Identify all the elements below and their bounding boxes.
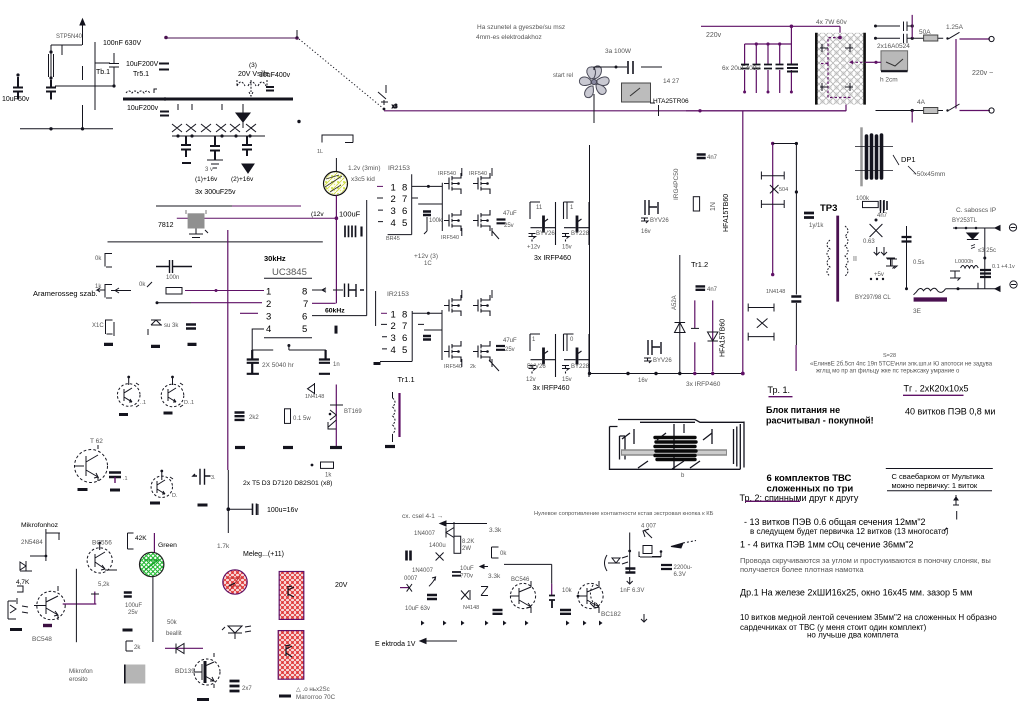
wire pin8 row1 — [412, 185, 442, 187]
svg-text:Нулевое сопротивление контактн: Нулевое сопротивление контактности кстав… — [534, 511, 714, 517]
svg-text:0.63: 0.63 — [863, 239, 875, 245]
diode Da — [446, 522, 454, 541]
svg-text:erosito: erosito — [69, 676, 88, 683]
wire pin1 purple — [185, 290, 264, 292]
svg-text:1: 1 — [391, 183, 396, 194]
wire pin8 — [312, 288, 343, 292]
svg-text:1N4148: 1N4148 — [766, 289, 785, 295]
svg-text:16v: 16v — [638, 378, 648, 384]
ground sym — [207, 160, 223, 168]
wire tr primary squiggle — [126, 91, 150, 93]
winding 20V dashed — [237, 82, 266, 86]
svg-text:3: 3 — [266, 312, 271, 323]
capacitor C 10uF50v second — [46, 80, 56, 100]
svg-text:4,7K: 4,7K — [16, 579, 30, 586]
diode purple wire — [165, 647, 203, 649]
transistor Qe — [510, 581, 536, 613]
wire top connector — [773, 143, 797, 145]
box svaeb bottom — [887, 490, 992, 492]
wire cap bank rail — [745, 26, 792, 93]
svg-text:1L: 1L — [317, 149, 323, 155]
diode D row bridge — [172, 124, 256, 132]
transistor mark hs2 — [285, 645, 292, 657]
svg-text:60kHz: 60kHz — [325, 308, 345, 315]
resistor bk1 — [105, 254, 112, 268]
wire purple column B — [772, 144, 774, 275]
svg-text:1400u: 1400u — [429, 543, 446, 549]
arrow elektroda — [420, 639, 457, 644]
snubber S1 — [761, 172, 784, 209]
resistor stack 3bars — [230, 681, 240, 691]
resistor 0.1 5w — [285, 409, 291, 424]
arrow feed — [440, 521, 487, 526]
winding TP3 primary — [827, 240, 830, 276]
resistor hash — [345, 226, 356, 238]
wire pin4 — [252, 329, 326, 350]
zener ctl — [148, 320, 162, 335]
svg-text:(2)+16v: (2)+16v — [231, 176, 254, 183]
capacitor bank plates — [741, 65, 784, 69]
svg-text:но лучьше два комплета: но лучьше два комплета — [807, 631, 899, 640]
svg-text:beallit: beallit — [166, 631, 182, 637]
svg-text:5: 5 — [302, 324, 307, 335]
svg-text:15v: 15v — [562, 245, 572, 251]
svg-text:0k: 0k — [139, 282, 146, 288]
svg-text:1n: 1n — [333, 362, 340, 368]
svg-text:11: 11 — [536, 205, 543, 211]
terminal plus — [1009, 224, 1016, 231]
svg-text:3x IRFP460: 3x IRFP460 — [533, 385, 570, 392]
wire out vert — [984, 228, 986, 289]
svg-text:Ha szunetel a gyeszbe/su msz: Ha szunetel a gyeszbe/su msz — [477, 24, 565, 31]
svg-text:0007: 0007 — [404, 576, 418, 582]
LED green — [140, 552, 164, 576]
svg-text:BYV26: BYV26 — [527, 364, 546, 370]
diode zener p2 — [712, 300, 714, 371]
transistor Q2 IRF540 — [473, 173, 490, 194]
wire purple column A — [742, 111, 744, 373]
svg-text:A52A: A52A — [672, 295, 678, 310]
svg-text:IRF540: IRF540 — [441, 235, 459, 241]
transformer TP3 core — [836, 216, 839, 302]
wire bottom bus mid — [590, 373, 743, 375]
diode De pair — [461, 590, 470, 600]
svg-text:BY297/98 CL: BY297/98 CL — [855, 295, 891, 301]
svg-text:1C: 1C — [424, 261, 432, 267]
svg-text:1k: 1k — [325, 473, 332, 479]
capacitor left leg — [902, 237, 912, 242]
svg-text:II: II — [853, 256, 857, 263]
svg-text:4: 4 — [391, 345, 396, 356]
svg-text:6x 20uF400v: 6x 20uF400v — [722, 65, 760, 72]
arrow dashed r — [671, 543, 683, 548]
fuse F1 — [924, 35, 938, 41]
relay contact r — [639, 546, 662, 558]
wire rectifier bus — [172, 104, 265, 136]
lamp NE1 yellow — [324, 172, 348, 196]
coil shading — [621, 449, 727, 456]
svg-text:4n7: 4n7 — [877, 213, 888, 219]
svg-text:10 витков медной лентой сечени: 10 витков медной лентой сечением 35мм"2 … — [740, 613, 997, 622]
ground row upper — [104, 345, 197, 347]
svg-text:HFA15TB60: HFA15TB60 — [723, 194, 730, 232]
capacitor snub top — [874, 22, 912, 32]
svg-text:T 62: T 62 — [90, 438, 103, 445]
wire minus row — [946, 283, 1001, 292]
optocoupler LED pair — [222, 626, 251, 639]
svg-text:50k: 50k — [167, 620, 178, 626]
ground g1 — [235, 446, 245, 449]
wire purple bottom link — [686, 110, 846, 112]
svg-text:2N5484: 2N5484 — [21, 539, 43, 546]
svg-text:7: 7 — [402, 321, 407, 332]
svg-text:2k: 2k — [470, 364, 476, 370]
svg-text:Tr1.1: Tr1.1 — [398, 375, 415, 384]
svg-text:3x IRFP460: 3x IRFP460 — [686, 381, 721, 388]
wire 7812 rail — [156, 205, 232, 207]
svg-text:1.25A: 1.25A — [946, 24, 964, 31]
thyristor T1 — [335, 385, 337, 447]
ground 7812 — [189, 229, 208, 238]
svg-text:4x 7W 60v: 4x 7W 60v — [816, 19, 847, 26]
svg-text:С сваебарком от Мультика: С сваебарком от Мультика — [892, 472, 986, 481]
svg-text:Тр. 1.: Тр. 1. — [768, 385, 791, 395]
node dots input — [16, 73, 19, 76]
svg-text:7: 7 — [402, 194, 407, 205]
diode zener mid — [675, 255, 686, 373]
svg-text:1N4007: 1N4007 — [414, 531, 436, 537]
svg-text:100uF: 100uF — [125, 603, 142, 609]
svg-text:..1: ..1 — [140, 400, 146, 406]
wire drain risers row1 — [462, 168, 506, 239]
resistor 2k b — [126, 641, 133, 651]
svg-text:2W: 2W — [462, 546, 471, 552]
capacitor on C — [791, 297, 801, 302]
transistor Q7 IRF540 — [444, 341, 461, 362]
svg-text:BR45: BR45 — [386, 236, 400, 242]
svg-text:15v: 15v — [562, 377, 572, 383]
resistor 10k bracket — [492, 547, 499, 558]
transistor Q BC548 — [34, 586, 65, 620]
svg-text:10uF200v: 10uF200v — [127, 105, 159, 112]
svg-text:можно первичку: 1 виток: можно первичку: 1 виток — [892, 481, 978, 490]
svg-text:3E: 3E — [913, 308, 922, 315]
svg-text:+5v: +5v — [874, 272, 884, 278]
pot wire purple — [400, 587, 410, 589]
svg-text:BT169: BT169 — [344, 409, 362, 415]
svg-text:+12v (3): +12v (3) — [414, 253, 438, 260]
node A top arrow — [80, 19, 85, 25]
transistor Q BC556 — [87, 542, 117, 573]
svg-text:C. saboscs IP: C. saboscs IP — [956, 207, 996, 214]
svg-text:UC3845: UC3845 — [272, 267, 307, 278]
svg-text:100nF 630V: 100nF 630V — [103, 40, 141, 47]
transistor Q3 IRF540 — [444, 210, 461, 231]
svg-text:5,2k: 5,2k — [98, 582, 110, 588]
svg-text:в следущем будет первичка 12 в: в следущем будет первичка 12 витков (13 … — [750, 527, 949, 536]
svg-text:D.: D. — [172, 493, 178, 499]
transistor mark hs1 — [287, 586, 294, 597]
svg-text:x3c5 kid: x3c5 kid — [351, 176, 375, 183]
transistor Qc big — [74, 445, 108, 490]
wire left out leg — [906, 226, 908, 289]
svg-text:2: 2 — [266, 299, 271, 310]
svg-text:8.2K: 8.2K — [462, 539, 474, 545]
svg-text:47uF: 47uF — [503, 338, 517, 344]
bracket lamp holder — [322, 135, 353, 172]
svg-text:1k: 1k — [95, 284, 102, 290]
svg-text:5: 5 — [402, 218, 407, 229]
svg-text:2X 5040 hr: 2X 5040 hr — [262, 362, 295, 369]
svg-text:3: 3 — [391, 206, 396, 217]
svg-text:7812: 7812 — [158, 222, 174, 229]
ground Tr1.1 — [385, 445, 395, 448]
wire pin2 — [156, 302, 191, 304]
wire fuse bottom — [876, 110, 944, 112]
wire pin8 row2 — [412, 310, 442, 360]
svg-text:3a 100W: 3a 100W — [605, 48, 632, 55]
svg-text:1.2v (3min): 1.2v (3min) — [348, 165, 381, 172]
svg-text:Tr1.2: Tr1.2 — [691, 260, 708, 269]
svg-text:4n7: 4n7 — [707, 155, 718, 161]
svg-text:Провода скручиваются за углом: Провода скручиваются за углом и простуки… — [740, 556, 991, 565]
svg-text:IRG4PC50: IRG4PC50 — [673, 168, 680, 200]
pot P1 — [166, 288, 182, 295]
svg-text:6.3V: 6.3V — [674, 572, 686, 578]
capacitor bank row2 B — [562, 334, 590, 377]
resistor 82K2W — [454, 536, 461, 553]
transformer T lattice box — [817, 33, 865, 105]
wire green feed — [153, 533, 155, 553]
terminal dots row — [870, 278, 872, 280]
terminal O1 — [989, 36, 994, 41]
relay K2 — [881, 51, 908, 71]
capacitor grp right row2 — [644, 340, 661, 363]
svg-text:HFA15TB60: HFA15TB60 — [720, 319, 727, 357]
capacitor pin8 — [345, 284, 365, 298]
svg-text:?70v: ?70v — [460, 574, 473, 580]
fuse F2 — [924, 108, 938, 114]
wire left joint — [55, 85, 95, 87]
svg-text:Meleg...(+11): Meleg...(+11) — [243, 551, 284, 558]
ground row mid — [104, 344, 197, 346]
capacitor dg — [560, 610, 571, 614]
svg-text:2200u-: 2200u- — [674, 565, 693, 571]
svg-text:N4148: N4148 — [463, 605, 479, 611]
svg-text:жглщ мо пр ап фильцу жке пс те: жглщ мо пр ап фильцу жке пс терьжсаку ум… — [816, 369, 960, 375]
svg-text:Тг . 2хК20х10х5: Тг . 2хК20х10х5 — [904, 384, 969, 394]
winding TP3 secondary — [845, 226, 848, 276]
wire jfet — [30, 529, 60, 561]
svg-text:16v: 16v — [641, 229, 651, 235]
svg-text:BY228: BY228 — [571, 364, 590, 370]
svg-text:cx. csel 4-1 →: cx. csel 4-1 → — [402, 513, 443, 520]
svg-text:100n: 100n — [166, 275, 179, 281]
svg-text:42K: 42K — [135, 535, 147, 542]
transistor Q4 IRF540 — [473, 210, 490, 231]
svg-text:6: 6 — [402, 206, 407, 217]
capacitor timing 1 — [247, 350, 259, 374]
svg-text:10uF200V: 10uF200V — [126, 61, 159, 68]
svg-text:10uF: 10uF — [460, 566, 474, 572]
box mic module — [125, 665, 146, 684]
wire below green — [152, 577, 154, 643]
transistor Q5 IRF540 — [444, 295, 461, 316]
ground g2 — [283, 446, 293, 449]
svg-text:E ektroda 1V: E ektroda 1V — [375, 641, 416, 648]
svg-text:BY228: BY228 — [571, 231, 590, 237]
wire fuse top — [912, 37, 943, 39]
svg-text:3x 300uF25v: 3x 300uF25v — [195, 189, 236, 196]
wire vert bus mic — [75, 569, 77, 642]
svg-text:4: 4 — [266, 324, 271, 335]
arrow left c — [480, 565, 488, 569]
capacitor 47uF row2 — [496, 346, 505, 350]
svg-text:BC182: BC182 — [601, 611, 621, 618]
svg-text:2k2: 2k2 — [249, 415, 259, 421]
optocoupler r — [605, 555, 629, 571]
svg-text:30kHz: 30kHz — [264, 254, 286, 263]
svg-text:BD139: BD139 — [175, 668, 195, 675]
switch S2a — [949, 32, 960, 39]
wire purple v1 — [694, 300, 696, 371]
inductor out coil — [961, 266, 979, 269]
svg-text:IR2153: IR2153 — [387, 291, 409, 298]
svg-text:BYV26: BYV26 — [653, 358, 672, 364]
capacitor 100n ctl — [156, 260, 192, 273]
svg-text:получается более плотная намот: получается более плотная намотка — [740, 565, 864, 574]
svg-text:40 витков ПЭВ 0,8 ми: 40 витков ПЭВ 0,8 ми — [905, 407, 995, 417]
capacitor C input pair — [49, 54, 54, 77]
wire 220v purple top — [701, 26, 840, 33]
svg-text:8: 8 — [402, 183, 407, 194]
wire collector purple — [63, 603, 97, 605]
svg-text:start rel: start rel — [553, 73, 573, 79]
svg-text:(3): (3) — [249, 62, 257, 69]
svg-text:14 27: 14 27 — [663, 78, 680, 85]
work coil assembly — [610, 420, 745, 470]
svg-text:2k: 2k — [134, 645, 141, 651]
svg-text:1: 1 — [391, 310, 396, 321]
resistor 42K bracket — [128, 533, 134, 549]
capacitor de — [549, 596, 555, 609]
svg-text:BC546: BC546 — [511, 577, 530, 583]
svg-text:6: 6 — [302, 312, 307, 323]
capacitor dc — [427, 595, 437, 599]
svg-text:6: 6 — [402, 333, 407, 344]
resistor vert — [693, 197, 699, 211]
svg-text:0k: 0k — [500, 551, 507, 557]
capacitor far left — [881, 201, 884, 213]
capacitor thick pair — [407, 551, 411, 561]
svg-text:HTA25TR06: HTA25TR06 — [653, 98, 689, 105]
resistor thick ctl — [186, 325, 196, 329]
svg-text:4: 4 — [391, 218, 396, 229]
svg-text:20V: 20V — [335, 582, 348, 589]
diode zener left — [887, 259, 897, 269]
node dot — [163, 97, 166, 100]
svg-text:1 - 4 витка ПЭВ 1мм сОц сечен: 1 - 4 витка ПЭВ 1мм сОц сечение 36мм"2 — [740, 540, 914, 550]
wire gate bus row1 — [412, 183, 442, 231]
svg-text:10uF400v: 10uF400v — [259, 72, 291, 79]
svg-text:10uF 63v: 10uF 63v — [405, 606, 430, 612]
wire pin6 — [312, 200, 367, 316]
svg-text:12v: 12v — [526, 377, 536, 383]
wire main bus — [108, 241, 323, 243]
capacitor C 10uF50v left — [13, 77, 23, 100]
svg-text:IR2153: IR2153 — [388, 165, 410, 172]
svg-text:△ .o ньх2Sс: △ .o ньх2Sс — [296, 686, 330, 693]
terminal O2 — [989, 108, 994, 113]
diode D10 — [308, 383, 315, 394]
capacitor timing 2 — [319, 350, 330, 374]
wire pin3 — [240, 312, 258, 314]
svg-text:su 3k: su 3k — [164, 323, 179, 329]
LED red — [223, 570, 247, 594]
diode D7 filled — [236, 113, 250, 122]
wire bottom-left bus — [20, 105, 113, 129]
capacitor C6 10uF400v — [266, 87, 274, 91]
switch S1 — [378, 85, 388, 105]
svg-text:3.3k: 3.3k — [489, 527, 502, 534]
svg-text:1: 1 — [266, 287, 271, 298]
diode D8 filled down — [242, 164, 254, 173]
svg-text:220v ~: 220v ~ — [972, 70, 993, 77]
svg-text:25v: 25v — [505, 347, 515, 353]
svg-text:≤3 25c: ≤3 25c — [978, 248, 996, 254]
electrode bar — [914, 297, 947, 301]
svg-text:3 v: 3 v — [205, 167, 213, 173]
capacitor 47uF row1 — [497, 220, 506, 224]
svg-text:Aramerosseg szab.: Aramerosseg szab. — [33, 289, 98, 298]
svg-text:BC556: BC556 — [92, 540, 112, 547]
svg-text:Блок питания не: Блок питания не — [766, 405, 840, 415]
svg-text:Tr5.1: Tr5.1 — [133, 71, 149, 78]
svg-text:0k: 0k — [95, 256, 102, 262]
ground marks row — [421, 621, 603, 626]
regulator 7812 — [188, 213, 205, 228]
capacitor polar r — [625, 569, 635, 573]
resistor 2k2 — [235, 413, 245, 420]
resistor 47K — [17, 586, 23, 604]
diode Db — [436, 553, 444, 561]
wire black column C — [795, 144, 797, 295]
svg-text:.1: .1 — [123, 476, 128, 482]
svg-text:504: 504 — [779, 187, 788, 193]
wire main purple line — [384, 110, 846, 112]
inductor DP1 — [860, 127, 863, 186]
svg-text:1N4007: 1N4007 — [412, 568, 434, 574]
transistor Qb — [161, 376, 184, 413]
svg-text:0.5s: 0.5s — [913, 260, 924, 266]
svg-text:Матоггоо 70С: Матоггоо 70С — [296, 694, 336, 701]
svg-text:X1C: X1C — [92, 323, 104, 329]
terminal minus — [1010, 281, 1017, 288]
svg-text:1.7k: 1.7k — [217, 543, 230, 550]
diode D out2 — [967, 233, 978, 239]
svg-text:47uF: 47uF — [503, 211, 517, 217]
capacitor out stack — [980, 270, 991, 277]
svg-text:Др.1 На железе 2хШИ16х25, окн: Др.1 На железе 2хШИ16х25, окно 16х45 мм.… — [740, 588, 972, 598]
svg-text:Mikrofon: Mikrofon — [69, 668, 93, 675]
resistor bleeder — [787, 65, 798, 72]
svg-text:2x7: 2x7 — [242, 686, 252, 692]
svg-text:1N: 1N — [710, 202, 717, 211]
svg-text:Green: Green — [158, 542, 177, 549]
pin mark — [953, 495, 959, 505]
svg-text:D..1: D..1 — [184, 400, 194, 406]
wire squiggle electrode — [914, 288, 946, 295]
